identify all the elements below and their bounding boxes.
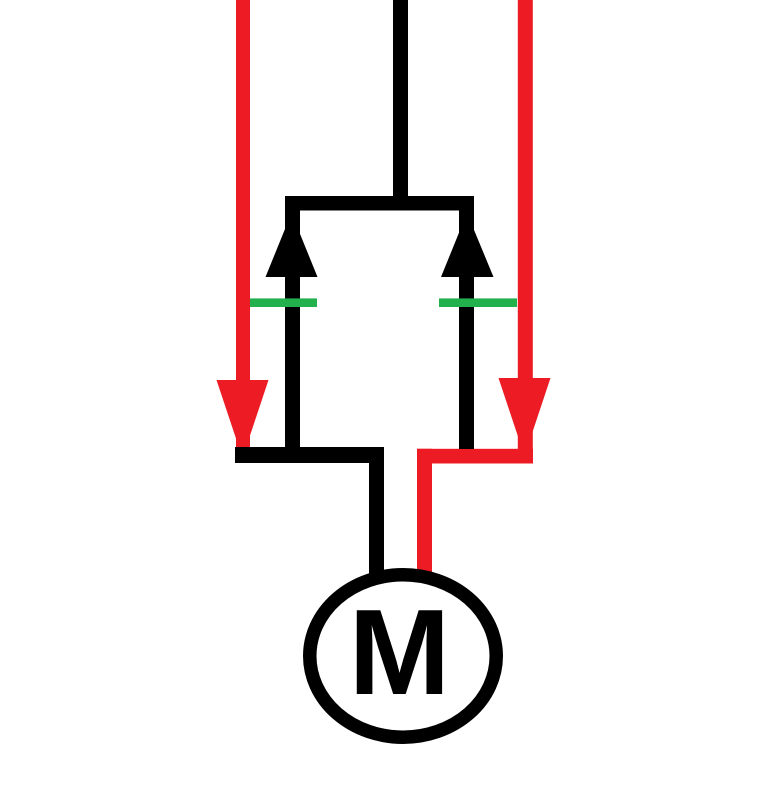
svg-text:M: M	[349, 584, 451, 720]
